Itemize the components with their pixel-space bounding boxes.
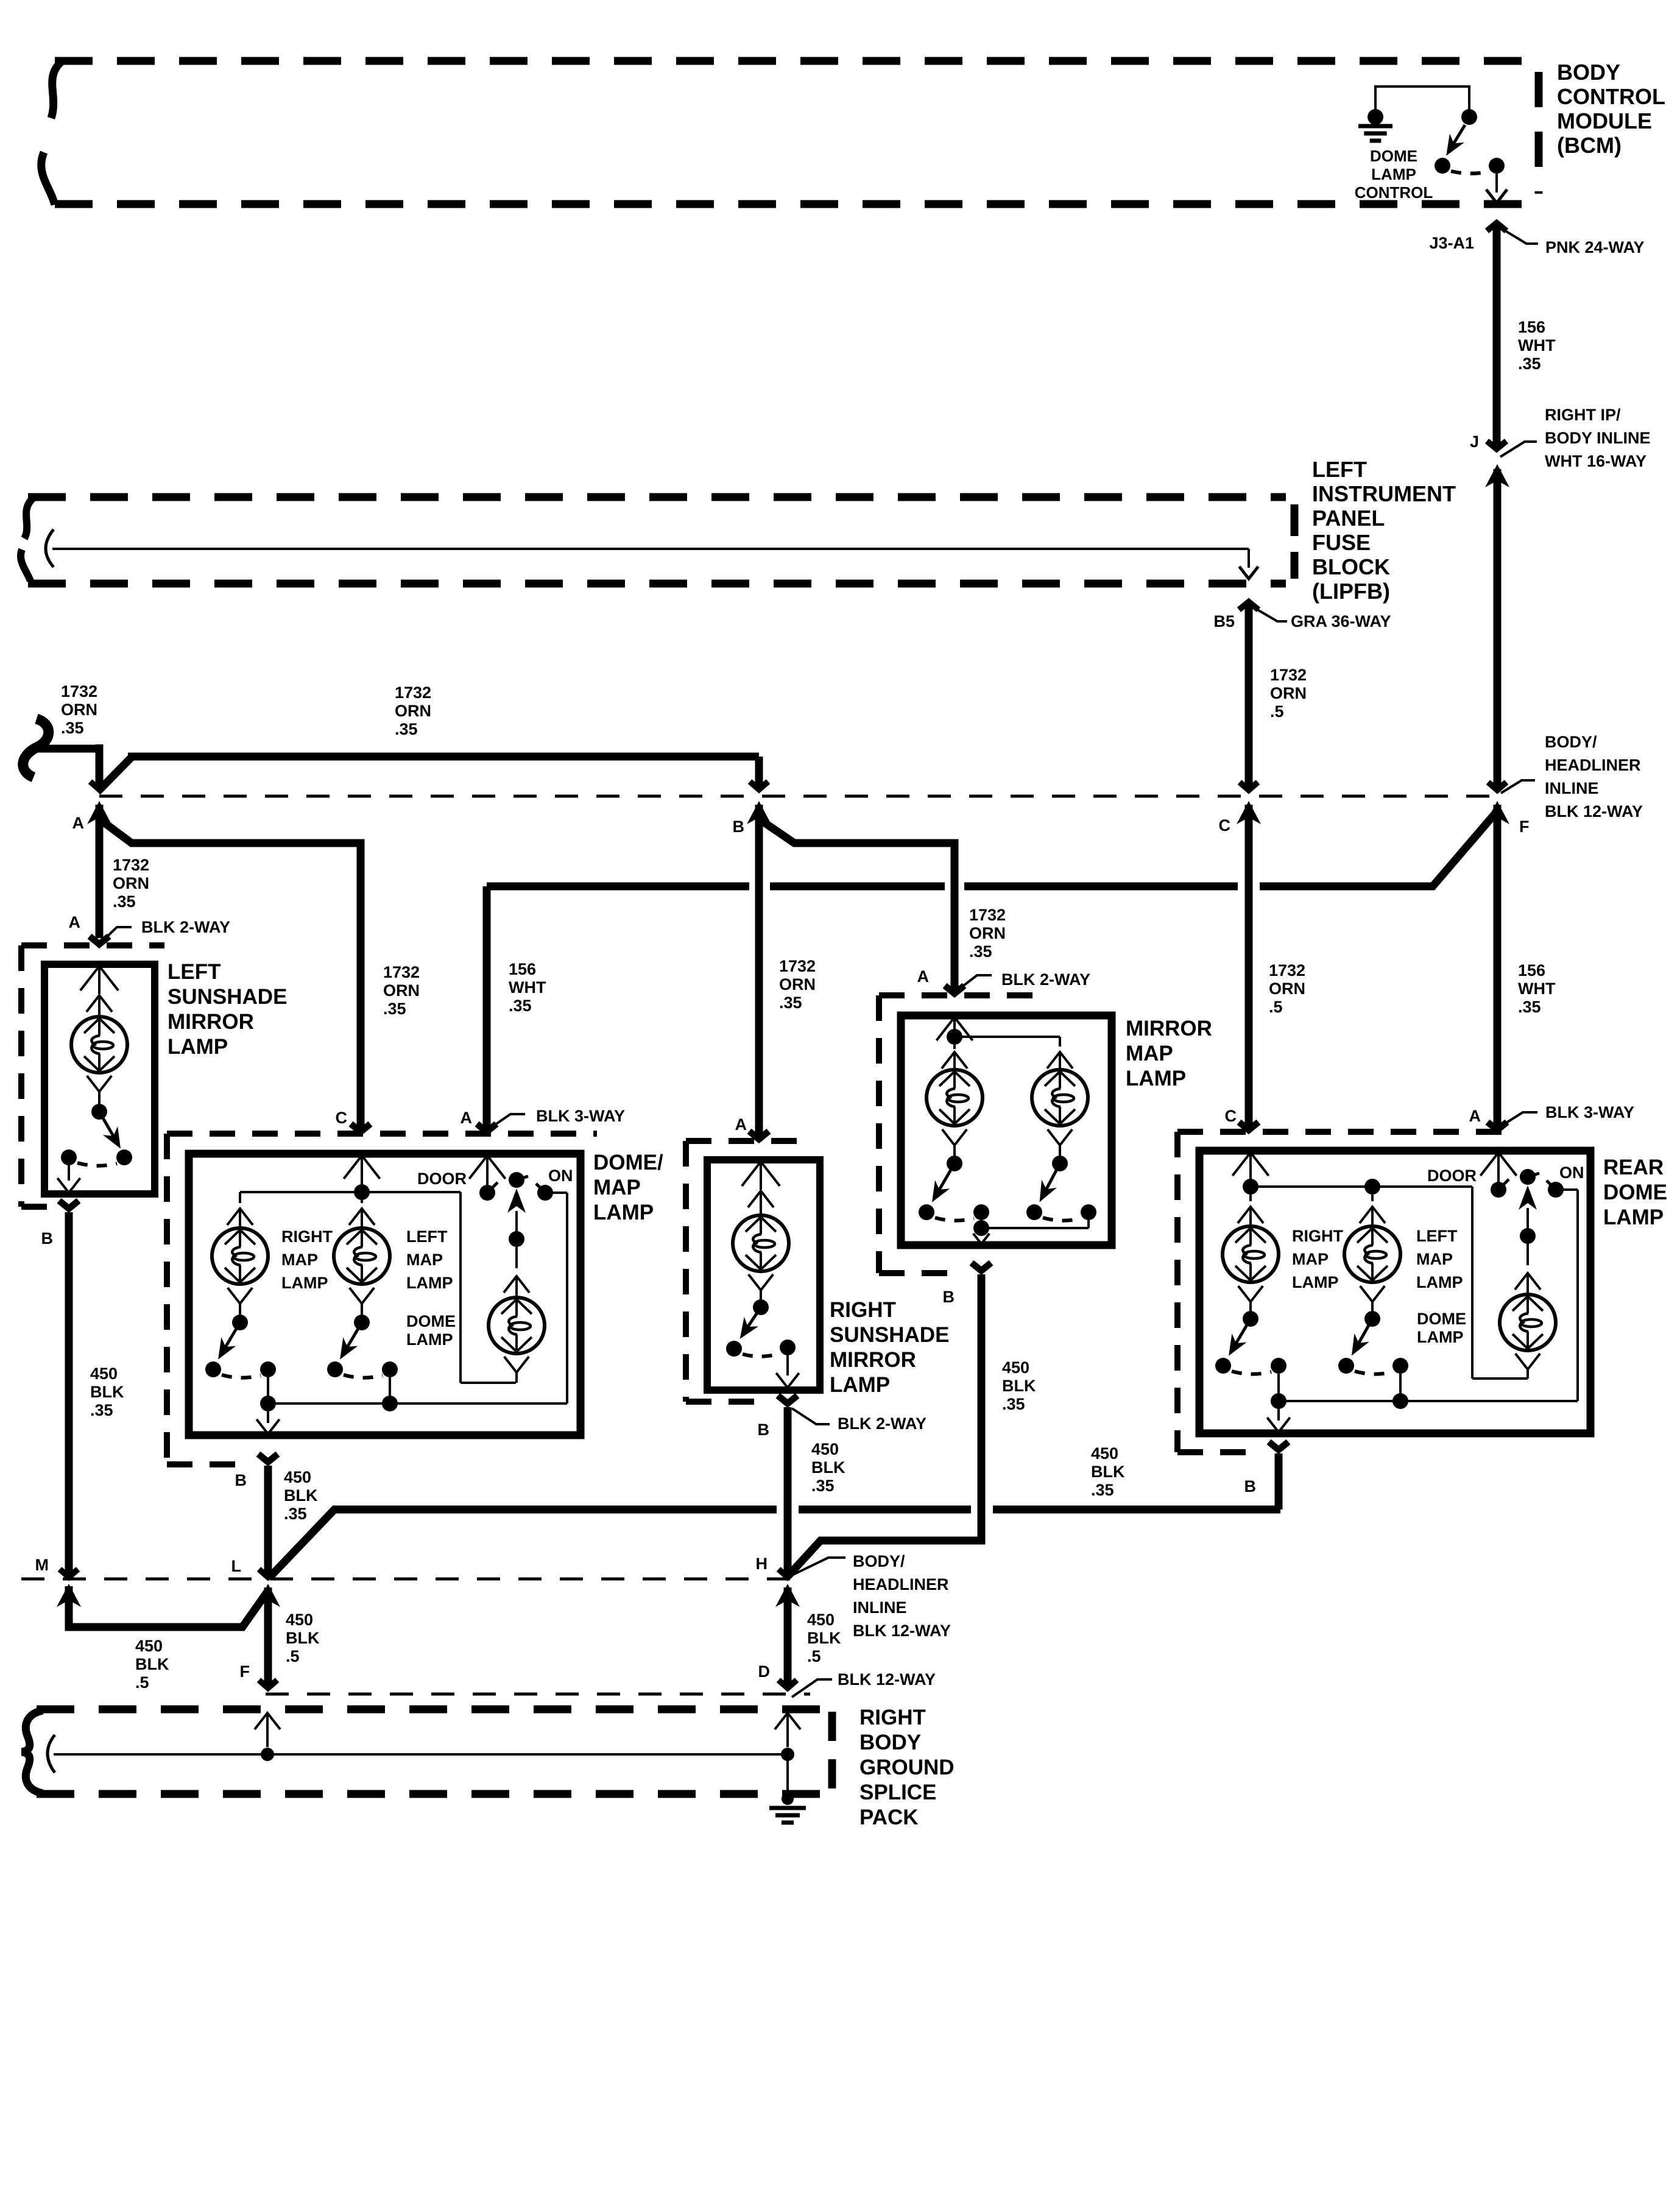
svg-text:1732: 1732 — [61, 682, 97, 701]
svg-text:B: B — [758, 1421, 770, 1439]
svg-text:450: 450 — [1002, 1358, 1029, 1377]
dome/map lamp box — [189, 1154, 581, 1435]
svg-text:.35: .35 — [383, 1000, 406, 1018]
svg-text:BLK: BLK — [90, 1383, 124, 1401]
wire 450 BLK .5 from M to L below inline — [57, 1584, 269, 1692]
wire 450 BLK .35 ground rail across bottom — [269, 1509, 1280, 1578]
wire branch B to mirror map lamp pin A 1732 ORN .35 — [758, 818, 1006, 992]
svg-text:BLK: BLK — [286, 1629, 320, 1647]
dome/map left map lamp switch — [327, 1315, 398, 1396]
left sunshade mirror lamp title — [168, 960, 287, 1059]
svg-text:450: 450 — [807, 1611, 835, 1629]
rear dome lamp bulb — [1417, 1273, 1556, 1379]
svg-text:LAMP: LAMP — [281, 1274, 328, 1292]
svg-text:RIGHT: RIGHT — [1292, 1227, 1344, 1245]
rear dome door-on switch — [1427, 1153, 1584, 1401]
dome/map door-on switch — [417, 1156, 573, 1403]
svg-text:LAMP: LAMP — [1292, 1273, 1339, 1291]
svg-text:C: C — [1219, 816, 1231, 835]
svg-text:BLK 2-WAY: BLK 2-WAY — [141, 918, 230, 936]
dome/map ground rail and exit — [256, 1396, 567, 1434]
BCM dashed enclosure box — [41, 61, 1539, 205]
mirror map lamp title — [1126, 1017, 1212, 1090]
wire 450 BLK .35 from rear dome B to ground rail — [1091, 1444, 1279, 1509]
inline-2 BLK 12-WAY dashed line with D connector — [266, 1662, 936, 1697]
svg-text:B: B — [235, 1471, 247, 1489]
svg-text:(LIPFB): (LIPFB) — [1312, 579, 1390, 604]
svg-text:BLK: BLK — [807, 1629, 841, 1647]
svg-text:A: A — [917, 967, 930, 986]
wire 1732 ORN .35 trunk from A to B above inline — [97, 683, 768, 792]
left sunshade mirror lamp box — [44, 964, 155, 1194]
mirror map ground junction and exit — [973, 1220, 1089, 1244]
left sunshade exit connector B — [41, 1201, 79, 1248]
splice pack entry from D and ground — [769, 1713, 806, 1823]
svg-text:SPLICE: SPLICE — [859, 1781, 936, 1804]
svg-text:B: B — [1244, 1477, 1257, 1495]
svg-text:MAP: MAP — [406, 1251, 443, 1269]
svg-text:B: B — [733, 817, 745, 836]
svg-text:A: A — [1469, 1107, 1481, 1125]
svg-text:BLK 3-WAY: BLK 3-WAY — [536, 1107, 625, 1125]
svg-text:.5: .5 — [1270, 702, 1284, 721]
svg-text:INSTRUMENT: INSTRUMENT — [1312, 481, 1456, 506]
svg-text:LAMP: LAMP — [1603, 1206, 1664, 1229]
svg-text:HEADLINER: HEADLINER — [1545, 756, 1641, 774]
svg-text:.35: .35 — [509, 997, 532, 1015]
svg-text:ORN: ORN — [113, 874, 149, 892]
rear dome left map lamp bulb — [1344, 1179, 1463, 1311]
right sunshade lamp switch — [726, 1299, 799, 1388]
svg-text:RIGHT: RIGHT — [859, 1706, 926, 1729]
inline pin letters A B C F — [72, 814, 1530, 836]
svg-text:A: A — [461, 1109, 473, 1127]
svg-text:.35: .35 — [395, 720, 418, 738]
right sunshade exit connector B BLK 2-WAY — [758, 1396, 927, 1439]
svg-text:ORN: ORN — [1269, 980, 1305, 998]
svg-text:PNK 24-WAY: PNK 24-WAY — [1545, 238, 1645, 256]
wire 156 WHT .35 from BCM to inline J — [1497, 224, 1556, 445]
left sunshade mirror lamp dashed enclosure — [21, 945, 164, 1207]
wire from inline C down to rear dome lamp pin C 1732 ORN .5 — [1237, 801, 1305, 1128]
svg-text:LAMP: LAMP — [1371, 165, 1416, 183]
svg-text:RIGHT: RIGHT — [830, 1298, 896, 1322]
wire 450 BLK .5 from L down to F connector — [240, 1584, 320, 1688]
svg-text:.35: .35 — [779, 994, 802, 1012]
connector J3-A1 PNK 24-WAY — [1429, 223, 1644, 256]
svg-text:C: C — [1225, 1107, 1237, 1125]
wire from inline F down and branch 156 WHT .35 — [1485, 801, 1556, 1128]
LIPFB title text — [1312, 457, 1456, 604]
svg-text:450: 450 — [90, 1364, 118, 1383]
svg-text:DOME: DOME — [406, 1312, 456, 1330]
svg-text:BODY/: BODY/ — [1545, 733, 1597, 751]
rear dome feed rail from pin C — [1232, 1153, 1528, 1379]
svg-text:.35: .35 — [969, 942, 992, 961]
svg-text:MIRROR: MIRROR — [168, 1010, 254, 1034]
svg-text:F: F — [1519, 817, 1530, 836]
svg-text:BODY INLINE: BODY INLINE — [1545, 429, 1651, 447]
wire from inline A down to left sunshade mirror lamp — [87, 801, 149, 938]
svg-text:MAP: MAP — [281, 1251, 318, 1269]
mirror map lamp connector A BLK 2-WAY — [917, 967, 1091, 994]
svg-text:GROUND: GROUND — [859, 1756, 955, 1779]
svg-text:LAMP: LAMP — [406, 1274, 453, 1292]
svg-text:DOME: DOME — [1603, 1181, 1667, 1204]
mirror map right switch — [1026, 1156, 1096, 1228]
svg-text:A: A — [735, 1115, 747, 1134]
svg-text:BLK: BLK — [1002, 1377, 1036, 1395]
right sunshade mirror lamp connector A — [735, 1115, 769, 1139]
rear dome lamp dashed enclosure — [1177, 1132, 1513, 1452]
svg-text:1732: 1732 — [113, 856, 149, 874]
dome/map lamp connector C — [336, 1109, 371, 1132]
svg-text:D: D — [758, 1662, 771, 1681]
svg-text:1732: 1732 — [1270, 666, 1307, 684]
svg-text:ORN: ORN — [61, 701, 97, 719]
svg-text:DOME: DOME — [1417, 1310, 1466, 1328]
svg-text:DOME: DOME — [1370, 147, 1417, 165]
wire inside LIPFB to B5 — [46, 529, 1258, 579]
svg-text:LEFT: LEFT — [1312, 457, 1367, 482]
inline connector J RIGHT IP/BODY INLINE WHT 16-WAY — [1470, 406, 1651, 487]
svg-text:BODY: BODY — [859, 1731, 921, 1754]
svg-text:450: 450 — [284, 1468, 311, 1486]
svg-text:.5: .5 — [286, 1647, 300, 1665]
svg-text:DOME/: DOME/ — [593, 1151, 663, 1174]
dome lamp control switch in BCM — [1355, 109, 1507, 203]
dome/map left map lamp bulb — [334, 1192, 453, 1315]
connector B5 GRA 36-WAY — [1213, 602, 1391, 630]
rear dome lamp connector A BLK 3-WAY — [1469, 1103, 1635, 1130]
svg-text:LAMP: LAMP — [406, 1330, 453, 1349]
svg-text:ON: ON — [548, 1167, 573, 1185]
svg-text:BLK 3-WAY: BLK 3-WAY — [1545, 1103, 1634, 1121]
wire 156 WHT .35 from J down to inline F — [1488, 469, 1506, 790]
svg-text:ORN: ORN — [383, 981, 420, 1000]
svg-text:BLOCK: BLOCK — [1312, 554, 1390, 579]
svg-text:GRA 36-WAY: GRA 36-WAY — [1291, 612, 1391, 630]
svg-text:450: 450 — [286, 1611, 313, 1629]
svg-text:F: F — [240, 1662, 250, 1681]
svg-text:PANEL: PANEL — [1312, 506, 1385, 531]
svg-text:WHT: WHT — [509, 978, 546, 997]
svg-text:LAMP: LAMP — [593, 1201, 654, 1224]
svg-text:ORN: ORN — [1270, 684, 1307, 702]
svg-text:MAP: MAP — [593, 1176, 641, 1199]
svg-text:.35: .35 — [1518, 355, 1541, 373]
svg-text:PACK: PACK — [859, 1806, 919, 1829]
dome/map right map lamp bulb — [212, 1209, 333, 1315]
dome/map dome lamp bulb — [406, 1276, 545, 1383]
label 1732 ORN .35 left — [61, 682, 97, 737]
wire 450 BLK .35 from mirror map B down and left to inline H — [788, 1274, 1036, 1576]
inline M L H dashed line BODY/HEADLINER INLINE — [21, 1552, 951, 1640]
svg-text:MAP: MAP — [1416, 1250, 1453, 1268]
svg-text:MAP: MAP — [1292, 1250, 1329, 1268]
wire 450 BLK .35 from dome/map B down to inline L — [259, 1466, 318, 1577]
dome/map feed rail from pin C — [240, 1156, 516, 1383]
wire from inline B down to right sunshade mirror lamp — [747, 801, 816, 1137]
svg-text:1732: 1732 — [383, 963, 420, 981]
svg-text:ORN: ORN — [395, 702, 431, 720]
svg-text:BLK 12-WAY: BLK 12-WAY — [838, 1670, 936, 1689]
svg-text:LAMP: LAMP — [1416, 1273, 1463, 1291]
LIPFB dashed enclosure box — [21, 497, 1294, 584]
svg-text:BLK: BLK — [811, 1458, 845, 1477]
left sunshade lamp switch — [57, 1104, 132, 1193]
dome/map lamp dashed enclosure — [167, 1134, 597, 1464]
svg-text:WHT: WHT — [1518, 980, 1556, 998]
svg-text:156: 156 — [1518, 318, 1545, 336]
svg-text:1732: 1732 — [395, 683, 431, 702]
svg-text:H: H — [756, 1555, 768, 1573]
svg-text:ON: ON — [1559, 1163, 1584, 1182]
svg-text:WHT: WHT — [1518, 336, 1556, 355]
svg-text:LAMP: LAMP — [1126, 1067, 1186, 1090]
svg-text:.5: .5 — [1269, 998, 1283, 1016]
mirror map lamp internal feed — [936, 1017, 1060, 1049]
svg-text:1732: 1732 — [779, 957, 816, 975]
svg-text:J: J — [1470, 432, 1479, 451]
svg-text:.35: .35 — [1091, 1481, 1114, 1499]
svg-text:BODY: BODY — [1557, 60, 1620, 85]
svg-text:.5: .5 — [807, 1647, 821, 1665]
dome/map right map lamp switch — [205, 1315, 276, 1396]
svg-text:BLK: BLK — [284, 1486, 318, 1505]
svg-text:INLINE: INLINE — [853, 1598, 907, 1617]
svg-text:FUSE: FUSE — [1312, 530, 1371, 555]
svg-text:WHT 16-WAY: WHT 16-WAY — [1545, 452, 1646, 470]
rear dome lamp connector C — [1225, 1107, 1259, 1130]
svg-text:DOOR: DOOR — [1427, 1167, 1477, 1185]
rear dome lamp title — [1603, 1156, 1667, 1229]
svg-text:HEADLINER: HEADLINER — [853, 1575, 949, 1594]
wire from ground to dome lamp control switch — [1375, 86, 1469, 113]
wire 1732 ORN .5 from B5 to inline C — [1240, 603, 1307, 790]
svg-text:450: 450 — [811, 1440, 839, 1458]
svg-text:ORN: ORN — [969, 924, 1006, 942]
dome/map exit connector B — [235, 1454, 278, 1489]
svg-text:A: A — [72, 814, 85, 832]
wire 1732 ORN .35 continuation hook from LIPFB — [23, 719, 99, 777]
svg-text:(BCM): (BCM) — [1557, 133, 1622, 158]
splice pack internal bus — [48, 1735, 788, 1773]
right sunshade lamp bulb and wiring — [733, 1162, 789, 1299]
svg-text:J3-A1: J3-A1 — [1429, 234, 1474, 252]
svg-text:.5: .5 — [135, 1673, 149, 1692]
svg-text:REAR: REAR — [1603, 1156, 1664, 1179]
svg-text:L: L — [231, 1557, 242, 1575]
svg-text:DOOR: DOOR — [417, 1170, 467, 1188]
rear dome exit connector B — [1244, 1442, 1289, 1495]
svg-text:RIGHT: RIGHT — [281, 1227, 333, 1246]
svg-text:RIGHT IP/: RIGHT IP/ — [1545, 406, 1621, 424]
svg-text:ORN: ORN — [779, 975, 816, 994]
svg-text:LEFT: LEFT — [1416, 1227, 1458, 1245]
svg-text:BLK: BLK — [1091, 1463, 1125, 1481]
svg-text:SUNSHADE: SUNSHADE — [830, 1323, 949, 1347]
svg-text:BLK 12-WAY: BLK 12-WAY — [853, 1622, 951, 1640]
svg-text:A: A — [69, 913, 81, 931]
wire 450 BLK .35 from right sunshade B down to inline H — [778, 1407, 845, 1577]
svg-text:450: 450 — [135, 1637, 163, 1655]
dome/map lamp title — [593, 1151, 663, 1224]
svg-text:CONTROL: CONTROL — [1355, 183, 1433, 202]
svg-text:BLK 2-WAY: BLK 2-WAY — [838, 1414, 926, 1433]
svg-text:M: M — [35, 1556, 49, 1574]
svg-text:B: B — [41, 1229, 54, 1248]
svg-text:BLK 12-WAY: BLK 12-WAY — [1545, 802, 1643, 821]
dome/map lamp connector A BLK 3-WAY — [461, 1107, 626, 1132]
svg-text:.35: .35 — [811, 1477, 835, 1495]
svg-text:MAP: MAP — [1126, 1042, 1173, 1065]
svg-text:MIRROR: MIRROR — [830, 1348, 916, 1372]
rear dome left map lamp switch — [1338, 1311, 1408, 1393]
svg-text:LEFT: LEFT — [406, 1227, 448, 1246]
svg-text:.35: .35 — [90, 1401, 113, 1419]
right sunshade mirror lamp box — [707, 1160, 820, 1390]
ground symbol inside BCM — [1358, 109, 1392, 141]
mirror map exit connector B — [943, 1263, 992, 1306]
svg-text:156: 156 — [509, 960, 536, 978]
rear dome right map lamp bulb — [1223, 1195, 1344, 1311]
wire down to inline A — [90, 744, 108, 789]
svg-text:LEFT: LEFT — [168, 960, 221, 984]
svg-text:156: 156 — [1518, 961, 1545, 980]
svg-text:1732: 1732 — [969, 906, 1006, 924]
mirror map lamp box — [901, 1015, 1112, 1245]
svg-text:B5: B5 — [1213, 612, 1235, 630]
left sunshade mirror lamp connector A BLK 2-WAY — [69, 913, 231, 944]
mirror map left switch — [919, 1156, 989, 1221]
svg-text:C: C — [336, 1109, 348, 1127]
left sunshade lamp bulb and wiring — [71, 966, 127, 1104]
svg-text:BLK: BLK — [135, 1655, 169, 1673]
mirror map lamp dashed enclosure — [879, 995, 1036, 1273]
svg-text:SUNSHADE: SUNSHADE — [168, 985, 287, 1009]
svg-text:.35: .35 — [113, 892, 136, 911]
svg-text:.35: .35 — [61, 719, 84, 737]
splice pack entry from F — [255, 1713, 280, 1761]
svg-text:LAMP: LAMP — [830, 1373, 890, 1397]
rear dome ground rail and exit — [1267, 1393, 1578, 1432]
svg-text:.35: .35 — [284, 1505, 307, 1523]
svg-text:INLINE: INLINE — [1545, 779, 1599, 797]
right sunshade mirror lamp dashed enclosure — [686, 1141, 810, 1402]
mirror map left bulb — [926, 1052, 983, 1156]
svg-text:.35: .35 — [1518, 998, 1541, 1016]
right sunshade mirror lamp title — [830, 1298, 949, 1397]
svg-text:LAMP: LAMP — [1417, 1328, 1464, 1346]
svg-text:LAMP: LAMP — [168, 1035, 228, 1059]
svg-text:MODULE: MODULE — [1557, 108, 1652, 133]
wire 156 WHT .35 horizontal run from F to dome/map lamp pin A — [487, 810, 1498, 1128]
svg-text:CONTROL: CONTROL — [1557, 84, 1665, 109]
rear dome right map lamp switch — [1215, 1311, 1286, 1393]
svg-text:MIRROR: MIRROR — [1126, 1017, 1212, 1040]
BCM title text — [1557, 60, 1665, 158]
svg-text:.35: .35 — [1002, 1395, 1025, 1413]
wire 450 BLK .5 from H down to D connector — [775, 1584, 841, 1688]
BODY/HEADLINER INLINE BLK 12-WAY dashed inline — [99, 733, 1643, 821]
rear dome lamp box — [1199, 1151, 1590, 1433]
mirror map right bulb — [1032, 1052, 1088, 1156]
svg-text:BODY/: BODY/ — [853, 1552, 905, 1570]
svg-text:B: B — [943, 1288, 955, 1306]
svg-text:1732: 1732 — [1269, 961, 1305, 980]
wire 450 BLK .35 from left sunshade B to inline M — [60, 1212, 124, 1577]
svg-text:BLK 2-WAY: BLK 2-WAY — [1001, 970, 1090, 989]
right body ground splice pack title — [859, 1706, 955, 1829]
wire branch A to dome/map lamp pin C 1732 ORN .35 — [98, 818, 420, 1128]
svg-text:450: 450 — [1091, 1444, 1118, 1463]
right body ground splice pack dashed box — [22, 1709, 832, 1794]
inline letters M L H — [35, 1555, 768, 1575]
